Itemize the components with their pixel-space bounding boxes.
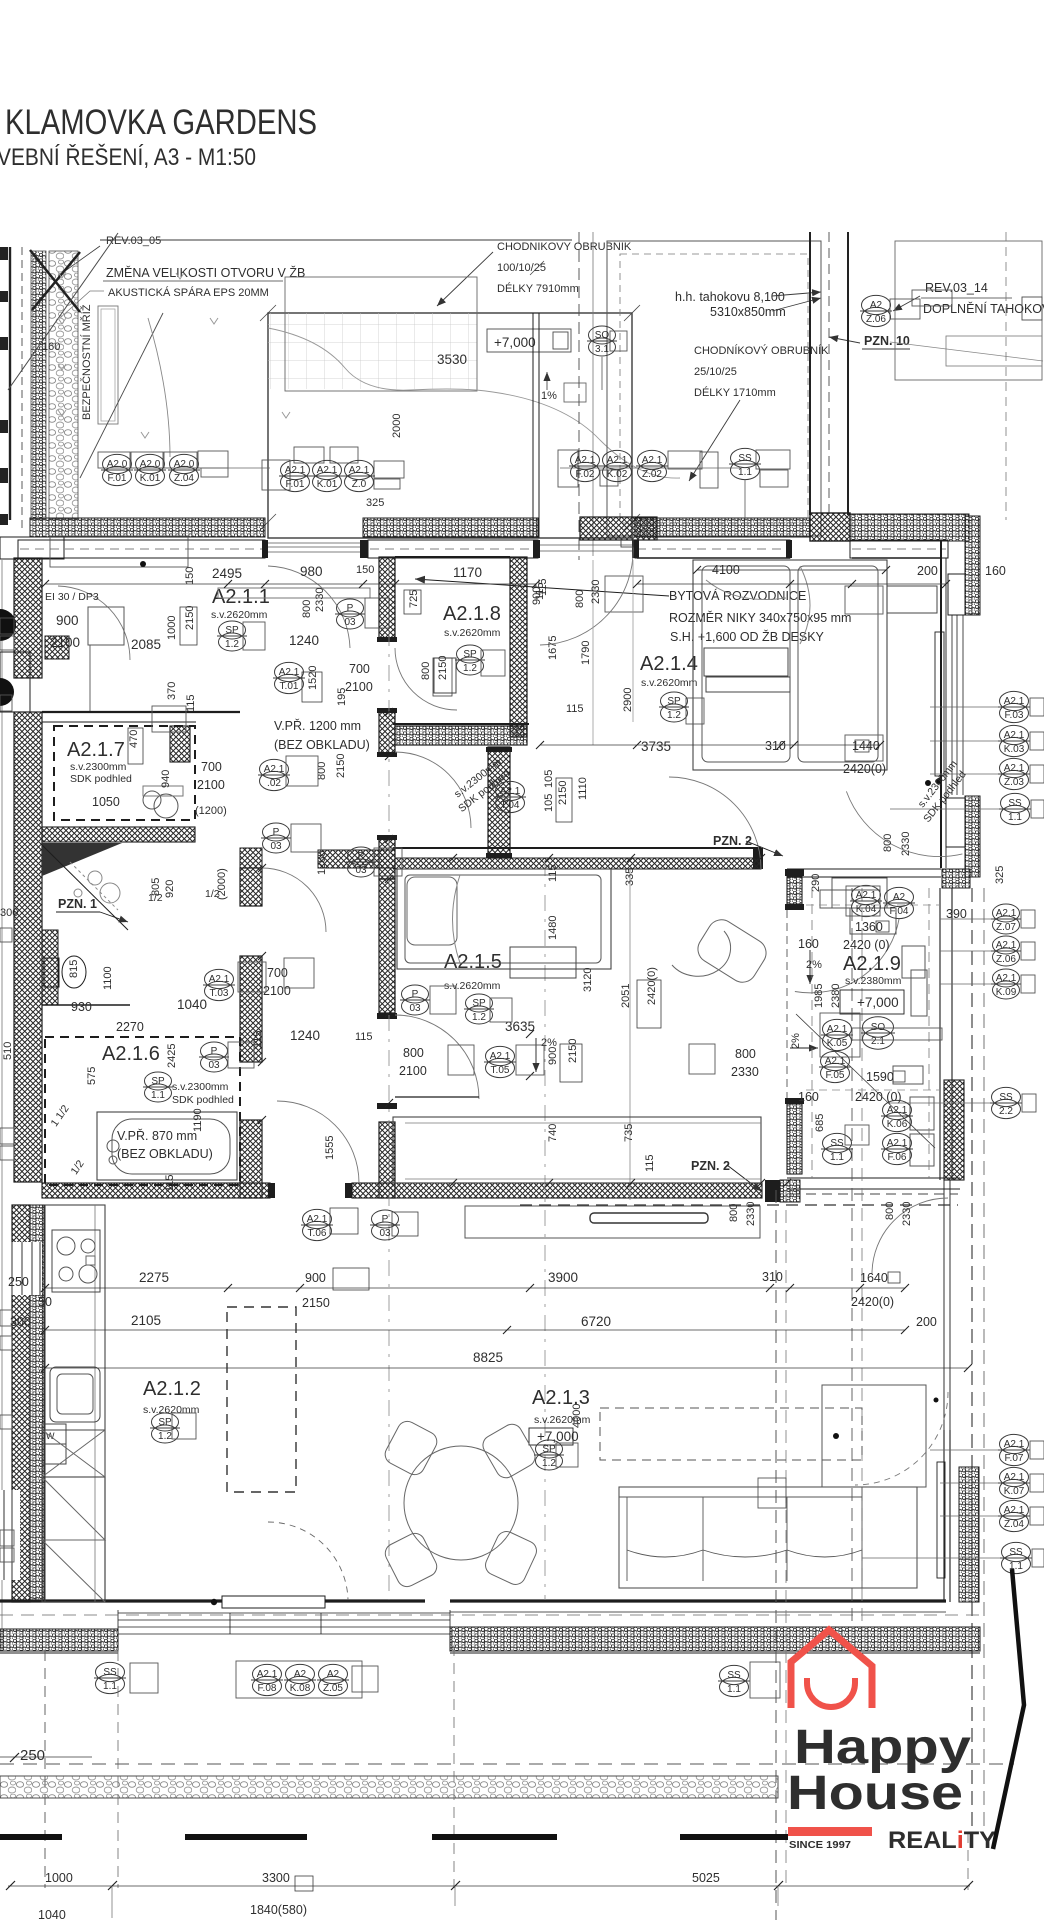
terrace wall edge above A218 [533, 313, 539, 538]
svg-text:1/2: 1/2 [205, 888, 220, 900]
svg-text:A2.1: A2.1 [264, 764, 285, 775]
vertical dashed refs [44, 1650, 46, 1888]
svg-text:SO: SO [595, 330, 610, 341]
bottom exterior wall [0, 1599, 946, 1602]
svg-text:105: 105 [543, 794, 555, 812]
A217 bottom wall [42, 827, 195, 842]
svg-text:800: 800 [420, 662, 432, 680]
svg-text:575: 575 [86, 1067, 98, 1085]
svg-text:1100: 1100 [102, 966, 114, 990]
house icon [791, 1630, 872, 1708]
svg-text:03: 03 [208, 1060, 220, 1071]
small arrows [58, 272, 290, 438]
svg-text:930: 930 [71, 1000, 92, 1014]
svg-text:5310x850mm: 5310x850mm [710, 305, 786, 319]
terrace door threshold hatch [580, 517, 657, 540]
svg-text:SO: SO [871, 1022, 886, 1033]
svg-text:A2.1: A2.1 [642, 455, 663, 466]
svg-text:A2.1: A2.1 [1004, 696, 1025, 707]
left wall window kitchen [10, 1242, 42, 1295]
svg-text:2425: 2425 [166, 1044, 178, 1068]
svg-text:SP: SP [542, 1444, 556, 1455]
svg-text:940: 940 [160, 770, 172, 788]
svg-text:A2.1: A2.1 [209, 974, 230, 985]
right terrace [607, 241, 821, 536]
terrace door opening [538, 545, 635, 551]
svg-text:1000: 1000 [166, 616, 178, 640]
svg-text:SP: SP [225, 625, 239, 636]
hall to living door [277, 1101, 359, 1183]
svg-text:A2.1: A2.1 [490, 1051, 511, 1062]
svg-text:300: 300 [10, 1315, 31, 1329]
svg-text:2330: 2330 [731, 1065, 759, 1079]
svg-text:h.h. tahokovu 8,100: h.h. tahokovu 8,100 [675, 290, 785, 304]
svg-text:F.07: F.07 [1005, 1453, 1024, 1464]
svg-text:F.05: F.05 [826, 1070, 845, 1081]
A2.1.9 right wall [940, 888, 952, 1180]
A214 dims [531, 578, 886, 812]
svg-text:2100: 2100 [197, 778, 225, 792]
wordmark [787, 1721, 971, 1820]
distribution board niche [605, 576, 643, 612]
svg-text:1050: 1050 [92, 795, 120, 809]
svg-text:1.1: 1.1 [151, 1090, 165, 1101]
svg-text:2100: 2100 [399, 1064, 427, 1078]
living to corridor door [872, 1198, 948, 1274]
leader tags right [862, 707, 1001, 1558]
svg-text:815: 815 [68, 960, 80, 978]
svg-text:s.v.2620mm: s.v.2620mm [641, 677, 698, 689]
svg-text:A2.1: A2.1 [307, 1214, 328, 1225]
svg-text:2150: 2150 [335, 754, 347, 778]
svg-text:A2.1: A2.1 [279, 667, 300, 678]
svg-text:1190: 1190 [192, 1108, 204, 1132]
A219 inner dashes [811, 888, 813, 1178]
svg-text:F.02: F.02 [576, 469, 595, 480]
svg-text:Z.04: Z.04 [1004, 1519, 1024, 1530]
armchair corner [822, 1385, 926, 1487]
svg-text:150: 150 [356, 564, 374, 576]
svg-text:A2.0: A2.0 [107, 459, 128, 470]
right wall lower [944, 1430, 950, 1602]
svg-text:Z.06: Z.06 [866, 314, 886, 325]
svg-text:325: 325 [366, 497, 384, 509]
terrace door swing [540, 545, 633, 645]
red bar [788, 1827, 872, 1836]
svg-text:2150: 2150 [437, 656, 449, 680]
svg-text:3300: 3300 [262, 1871, 290, 1885]
corner step [942, 869, 970, 888]
svg-text:735: 735 [623, 1124, 635, 1142]
svg-text:150: 150 [184, 567, 196, 585]
svg-text:740: 740 [547, 1124, 559, 1142]
svg-text:2085: 2085 [131, 637, 161, 652]
dining table [382, 1418, 540, 1590]
svg-text:2100: 2100 [263, 984, 291, 998]
svg-text:s.v.2620mm: s.v.2620mm [211, 609, 268, 621]
top wall dark hatch pillar [810, 513, 850, 541]
diagonals [8, 233, 118, 390]
svg-text:800: 800 [728, 1204, 740, 1222]
svg-text:2330: 2330 [745, 1202, 757, 1226]
svg-text:3735: 3735 [641, 739, 671, 754]
wall A218/A214 vertical x510-527 [510, 557, 527, 737]
svg-text:4100: 4100 [712, 563, 740, 577]
grille panel [98, 306, 118, 424]
toilet [44, 958, 59, 987]
svg-text:KLAMOVKA GARDENS: KLAMOVKA GARDENS [5, 103, 317, 142]
svg-text:03: 03 [270, 841, 282, 852]
A217 dashed ceiling box [54, 726, 195, 820]
svg-text:2.2: 2.2 [999, 1106, 1013, 1117]
svg-text:2150: 2150 [302, 1296, 330, 1310]
top annotations [58, 235, 1044, 481]
A2.1.9 left wall [787, 876, 802, 904]
svg-text:A2.1: A2.1 [1004, 1505, 1025, 1516]
svg-text:s.v.2300mm: s.v.2300mm [70, 761, 127, 773]
svg-text:A2.1: A2.1 [856, 890, 877, 901]
svg-text:DOPLNĚNÍ TAHOKOVU: DOPLNĚNÍ TAHOKOVU [923, 301, 1044, 316]
svg-text:1/2: 1/2 [68, 1158, 86, 1177]
svg-text:Z.03: Z.03 [1004, 777, 1024, 788]
top wall lintel rects [18, 540, 948, 558]
svg-text:Z.06: Z.06 [996, 954, 1016, 965]
small boxes next to tags [130, 331, 1044, 1698]
svg-text:03: 03 [409, 1003, 421, 1014]
svg-text:(BEZ OBKLADU): (BEZ OBKLADU) [117, 1147, 213, 1161]
svg-text:2330: 2330 [901, 1202, 913, 1226]
tv sideboard [465, 1206, 760, 1238]
svg-text:SDK podhled: SDK podhled [172, 1094, 234, 1106]
svg-text:115: 115 [164, 1174, 176, 1192]
svg-text:SP: SP [463, 649, 477, 660]
svg-text:2105: 2105 [131, 1313, 161, 1328]
svg-text:A2: A2 [327, 1669, 340, 1680]
svg-text:REV.03_14: REV.03_14 [925, 281, 988, 295]
svg-text:250: 250 [8, 1275, 29, 1289]
svg-text:Z.0: Z.0 [352, 479, 367, 490]
svg-text:800: 800 [882, 834, 894, 852]
A219 dims [728, 832, 1006, 1226]
right edge small boxes [1022, 297, 1042, 320]
svg-text:K.06: K.06 [887, 1119, 908, 1130]
interior detail [0, 313, 969, 1920]
svg-text:1.2: 1.2 [225, 639, 239, 650]
svg-text:DÉLKY 1710mm: DÉLKY 1710mm [694, 386, 776, 399]
svg-text:A2: A2 [893, 892, 906, 903]
right exterior wall [965, 516, 980, 615]
bottom strip [0, 1645, 1014, 1920]
svg-text:A2.1: A2.1 [285, 465, 306, 476]
title block [0, 103, 317, 171]
svg-text:115: 115 [644, 1154, 656, 1172]
svg-text:F.08: F.08 [258, 1683, 277, 1694]
svg-text:SINCE 1997: SINCE 1997 [789, 1839, 851, 1851]
svg-text:900: 900 [56, 613, 79, 628]
svg-text:335: 335 [624, 868, 636, 886]
window right wall [935, 632, 944, 776]
svg-text:2000: 2000 [391, 414, 403, 438]
thin long leader to right edge [890, 342, 1043, 361]
cluster boxes top-left [98, 290, 952, 490]
svg-text:REALiTY: REALiTY [888, 1827, 996, 1854]
svg-text:920: 920 [164, 880, 176, 898]
svg-text:Z.02: Z.02 [642, 469, 662, 480]
svg-text:s.v.2300mm: s.v.2300mm [172, 1081, 229, 1093]
leaders pzn2 [746, 841, 783, 856]
svg-text:6720: 6720 [581, 1314, 611, 1329]
A2.1.9 top wall [787, 869, 941, 877]
wall corridor/A218 vertical x379-395 [379, 557, 395, 641]
A2.1.9 bottom wall [787, 1178, 960, 1189]
svg-text:A2: A2 [870, 300, 883, 311]
svg-text:T.05: T.05 [491, 1065, 510, 1076]
svg-text:1.2: 1.2 [158, 1431, 172, 1442]
jamb blocks [262, 540, 792, 558]
svg-text:A2.1: A2.1 [1004, 730, 1025, 741]
svg-text:800: 800 [884, 1202, 896, 1220]
svg-text:SP: SP [667, 696, 681, 707]
left exterior wall [14, 558, 42, 678]
svg-text:A2.1: A2.1 [317, 465, 338, 476]
svg-text:700: 700 [267, 966, 288, 980]
svg-text:PZN. 1: PZN. 1 [58, 897, 97, 911]
stone facing strip [49, 251, 78, 519]
svg-text:2420 (0): 2420 (0) [855, 1090, 902, 1104]
svg-text:AKUSTICKÁ SPÁRA EPS 20MM: AKUSTICKÁ SPÁRA EPS 20MM [108, 286, 269, 299]
svg-text:PZN. 10: PZN. 10 [864, 334, 910, 348]
svg-text:1110: 1110 [577, 777, 589, 800]
svg-text:K.01: K.01 [317, 479, 338, 490]
svg-text:2275: 2275 [139, 1270, 169, 1285]
svg-text:A2.1: A2.1 [1004, 763, 1025, 774]
svg-text:A2.1: A2.1 [827, 1024, 848, 1035]
svg-text:1.2: 1.2 [542, 1458, 556, 1469]
svg-text:EI 30 / DP3: EI 30 / DP3 [45, 591, 99, 603]
svg-text:(1200): (1200) [195, 805, 227, 817]
bottom dim line [8, 1885, 970, 1887]
washbasin A2.1.7 [143, 791, 161, 809]
+7000 boxes [840, 990, 904, 1014]
dashed axis lines long [388, 560, 390, 1600]
furniture [42, 560, 948, 1602]
tag stems [602, 357, 745, 519]
svg-text:1040: 1040 [177, 997, 207, 1012]
bathroom dims [48, 730, 372, 1192]
svg-text:(BEZ OBKLADU): (BEZ OBKLADU) [274, 738, 370, 752]
svg-text:REV.03_05: REV.03_05 [106, 235, 161, 247]
svg-text:3530: 3530 [437, 352, 467, 367]
eps insulation strip [31, 251, 46, 519]
svg-text:A2.1: A2.1 [887, 1105, 908, 1116]
dashed axis verticals [578, 232, 580, 560]
svg-text:1.1: 1.1 [830, 1152, 844, 1163]
svg-text:K.01: K.01 [140, 473, 161, 484]
svg-text:SP: SP [158, 1417, 172, 1428]
bed A2.1.4 [693, 560, 887, 770]
svg-text:1790: 1790 [580, 641, 592, 665]
rubble band [0, 1776, 778, 1798]
bent section line [993, 1569, 1024, 1849]
svg-text:A2.1.6: A2.1.6 [102, 1043, 160, 1065]
svg-text:T.04: T.04 [501, 800, 520, 811]
svg-text:2100: 2100 [345, 680, 373, 694]
svg-text:Z.04: Z.04 [174, 473, 194, 484]
svg-text:BYTOVÁ ROZVODNICE: BYTOVÁ ROZVODNICE [669, 588, 806, 603]
svg-text:K.02: K.02 [607, 469, 628, 480]
wall x240 vertical [240, 868, 262, 906]
svg-text:ROZMĚR NIKY 340x750x95 mm: ROZMĚR NIKY 340x750x95 mm [669, 610, 851, 625]
svg-text:3.1: 3.1 [595, 344, 609, 355]
smile [807, 1678, 855, 1707]
svg-text:PZN. 2: PZN. 2 [691, 1159, 730, 1173]
A2.1.6 dashed ceiling box [45, 1037, 240, 1185]
reference tags [94, 290, 1044, 1698]
svg-text:105: 105 [543, 770, 555, 788]
entry porch bits [0, 537, 64, 559]
terrace outer rect [268, 313, 632, 538]
svg-text:A2.1: A2.1 [887, 1138, 908, 1149]
svg-text:A2.1.7: A2.1.7 [67, 739, 125, 761]
svg-text:700: 700 [201, 760, 222, 774]
svg-text:A2.1.5: A2.1.5 [444, 951, 502, 973]
wardrobe band under A215 [393, 1117, 761, 1183]
svg-text:P: P [412, 989, 419, 1000]
wall x379 vertical lower [379, 879, 395, 1013]
svg-text:115: 115 [566, 703, 584, 715]
svg-text:2420 (0): 2420 (0) [843, 938, 890, 952]
svg-text:T.03: T.03 [210, 988, 229, 999]
svg-text:1 1/2: 1 1/2 [48, 1103, 71, 1129]
top exterior wall: insulation band segments [30, 514, 969, 541]
svg-text:700: 700 [349, 662, 370, 676]
svg-text:160: 160 [985, 564, 1006, 578]
corner ticks [260, 261, 640, 530]
svg-text:2330: 2330 [900, 832, 912, 856]
svg-text:2330: 2330 [590, 580, 602, 604]
svg-text:800: 800 [301, 600, 313, 618]
hall doors [262, 868, 326, 932]
svg-text:F.06: F.06 [888, 1152, 907, 1163]
bathtub A2.1.6 [97, 1112, 237, 1180]
leader to wall [58, 246, 100, 276]
svg-text:A2.1: A2.1 [607, 455, 628, 466]
svg-text:3120: 3120 [582, 968, 594, 992]
left edge partial tags/boxes [0, 618, 14, 1562]
svg-text:50: 50 [38, 1295, 52, 1309]
svg-text:370: 370 [166, 682, 178, 700]
svg-text:SP: SP [151, 1076, 165, 1087]
svg-text:A2.1: A2.1 [575, 455, 596, 466]
svg-text:1.1: 1.1 [103, 1681, 117, 1692]
corridor wardrobe [88, 607, 124, 645]
svg-text:A2.1.4: A2.1.4 [640, 653, 698, 675]
svg-text:1840(580): 1840(580) [250, 1903, 307, 1917]
svg-text:200: 200 [917, 564, 938, 578]
svg-text:A2.0: A2.0 [174, 459, 195, 470]
svg-text:1590: 1590 [866, 1070, 894, 1084]
svg-text:Z.05: Z.05 [323, 1683, 343, 1694]
hall top wall y848 [240, 848, 262, 868]
hall dims [252, 754, 759, 1172]
svg-text:160: 160 [798, 1090, 819, 1104]
svg-text:2420(0): 2420(0) [851, 1295, 894, 1309]
svg-text:House: House [787, 1767, 963, 1820]
svg-text:980: 980 [300, 564, 323, 579]
sofa [619, 1487, 917, 1588]
shower corner dark [42, 843, 122, 876]
double wall right of terrace [809, 232, 811, 515]
black half disc [0, 609, 16, 641]
svg-text:A2.1: A2.1 [1004, 1472, 1025, 1483]
svg-text:P: P [382, 1214, 389, 1225]
svg-text:SP: SP [472, 998, 486, 1009]
bottom window [118, 1613, 450, 1634]
exterior walls [0, 357, 984, 1830]
svg-text:900: 900 [547, 1047, 559, 1065]
svg-text:K.04: K.04 [856, 904, 877, 915]
svg-text:2.1: 2.1 [871, 1036, 885, 1047]
svg-text:1640: 1640 [860, 1271, 888, 1285]
svg-text:V.PŘ. 870 mm: V.PŘ. 870 mm [117, 1128, 197, 1143]
svg-text:SDK podhled: SDK podhled [70, 773, 132, 785]
svg-text:1440: 1440 [852, 739, 880, 753]
svg-text:800: 800 [574, 590, 586, 608]
wardrobe A2.1.1 right [832, 878, 887, 908]
A2.1.4 door lower right [846, 769, 962, 876]
svg-text:P: P [347, 603, 354, 614]
svg-text:2420(0): 2420(0) [646, 967, 658, 1005]
svg-text:200: 200 [916, 1315, 937, 1329]
svg-text:SS: SS [103, 1667, 117, 1678]
svg-text:SS: SS [1009, 1547, 1023, 1558]
svg-text:4000: 4000 [571, 1404, 583, 1428]
swing arc [148, 318, 170, 457]
svg-text:SS: SS [1008, 798, 1022, 809]
svg-text:1.1: 1.1 [1008, 812, 1022, 823]
svg-text:F.04: F.04 [890, 906, 909, 917]
svg-text:115: 115 [355, 1031, 373, 1043]
svg-text:1040: 1040 [38, 1908, 66, 1920]
A2.1.8 cupboard [434, 658, 456, 693]
svg-text:1520: 1520 [307, 666, 319, 690]
svg-text:K.07: K.07 [1004, 1486, 1025, 1497]
svg-text:P: P [211, 1046, 218, 1057]
svg-text:K.09: K.09 [996, 987, 1017, 998]
svg-text:F.01: F.01 [286, 479, 305, 490]
svg-text:115: 115 [547, 864, 559, 882]
left facade strip [0, 233, 290, 530]
svg-text:VEBNÍ ŘEŠENÍ, A3 - M1:50: VEBNÍ ŘEŠENÍ, A3 - M1:50 [0, 143, 256, 171]
svg-text:100/10/25: 100/10/25 [497, 262, 546, 274]
stub wall A217 door jamb [170, 726, 190, 762]
svg-text:250: 250 [20, 1747, 45, 1764]
svg-text:03: 03 [344, 617, 356, 628]
left edge frame [9, 247, 11, 520]
dresser A2.1.4 [704, 648, 788, 676]
svg-text:2051: 2051 [620, 984, 632, 1008]
svg-text:T.01: T.01 [280, 681, 299, 692]
black cap hall wall end [753, 848, 763, 869]
svg-text:BEZPEČNOSTNÍ MŘÍŽ: BEZPEČNOSTNÍ MŘÍŽ [80, 304, 93, 420]
long dashed line [0, 1763, 1014, 1765]
svg-text:2150: 2150 [184, 606, 196, 630]
svg-text:1240: 1240 [289, 633, 319, 648]
svg-text:1%: 1% [541, 390, 557, 402]
svg-text:160: 160 [798, 937, 819, 951]
svg-text:2330: 2330 [314, 588, 326, 612]
svg-text:1.2: 1.2 [463, 663, 477, 674]
